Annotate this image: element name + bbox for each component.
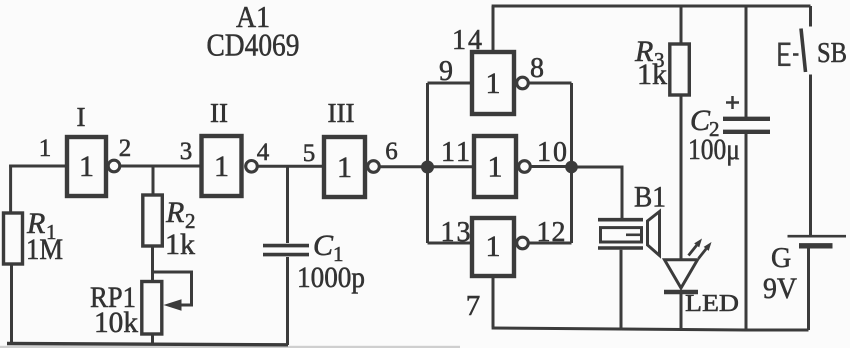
- svg-text:1: 1: [79, 150, 94, 183]
- node B junction dot: [565, 161, 578, 174]
- svg-text:I: I: [77, 102, 86, 132]
- svg-text:6: 6: [385, 138, 398, 165]
- label C2: [690, 104, 720, 141]
- inverter II: [202, 136, 258, 196]
- svg-text:7: 7: [466, 290, 481, 322]
- svg-text:1: 1: [488, 151, 503, 184]
- svg-text:SB: SB: [817, 37, 847, 69]
- top supply rail: [492, 5, 811, 8]
- wire pin 9 horizontal: [428, 82, 473, 85]
- svg-text:LED: LED: [685, 291, 739, 317]
- svg-text:2: 2: [119, 135, 132, 162]
- node A junction dot: [421, 161, 434, 174]
- wire inverter I output to inverter II: [120, 165, 202, 168]
- wire pin 12 horizontal: [528, 242, 571, 245]
- RP1 wiper connection wire: [152, 272, 192, 305]
- wire R2 to RP1: [151, 246, 154, 281]
- svg-text:5: 5: [303, 140, 316, 167]
- svg-text:100μ: 100μ: [688, 133, 740, 166]
- svg-text:1k: 1k: [165, 228, 195, 261]
- wire C1 to ground bus: [286, 257, 289, 345]
- svg-text:CD4069: CD4069: [207, 27, 300, 63]
- resistor R2: [143, 195, 163, 246]
- wire node B to B1: [572, 167, 623, 219]
- svg-text:11: 11: [441, 137, 470, 168]
- wire pin 10 horizontal: [530, 165, 571, 168]
- wire battery to bottom rail: [807, 249, 810, 331]
- buffer inverter U1c (pins 13-12): [472, 218, 528, 276]
- wire C2 to bottom rail: [745, 134, 748, 330]
- buffer inverter U1b (pins 11-10): [474, 136, 530, 197]
- svg-text:1M: 1M: [26, 233, 63, 266]
- buffer inverter U1a (pins 9-8): [472, 52, 528, 114]
- wire input column of buffers: [426, 83, 429, 243]
- wire inverter II output to inverter III: [256, 165, 324, 168]
- svg-text:C: C: [313, 229, 334, 262]
- svg-text:1: 1: [337, 151, 352, 184]
- bottom right rail: [492, 328, 809, 330]
- ground bus bottom left: [7, 344, 288, 345]
- wire top rail to R3: [680, 6, 683, 44]
- battery G: [788, 236, 847, 246]
- svg-text:3: 3: [180, 138, 193, 165]
- wire output column of buffers: [570, 83, 573, 243]
- wire B1 to bottom rail: [620, 250, 623, 329]
- svg-text:G: G: [771, 243, 791, 274]
- capacitor C2: [723, 119, 770, 132]
- inverter III: [324, 137, 379, 197]
- wire branch down to C1: [286, 166, 289, 243]
- svg-text:III: III: [328, 98, 355, 128]
- svg-text:10k: 10k: [94, 306, 138, 339]
- wire pin 11 horizontal: [428, 165, 475, 168]
- speaker B1: [598, 212, 660, 256]
- wire top rail to C2: [745, 6, 748, 117]
- svg-text:4: 4: [257, 139, 270, 166]
- svg-text:9V: 9V: [763, 272, 797, 305]
- potentiometer RP1: [142, 282, 162, 335]
- wire inverter III output to node A: [379, 165, 427, 168]
- svg-text:1: 1: [486, 230, 501, 263]
- wire R1 to ground bus: [10, 264, 13, 344]
- svg-text:1k: 1k: [637, 58, 667, 91]
- switch SB: [801, 6, 811, 236]
- inverter I: [67, 137, 120, 196]
- RP1 wiper arrow: [164, 299, 182, 311]
- wire branch down to R2: [152, 166, 155, 195]
- wire left input horizontal pin1: [9, 165, 67, 168]
- svg-text:B1: B1: [634, 181, 666, 214]
- label R3: [634, 35, 665, 72]
- LED arrows: [689, 239, 712, 259]
- label R1: [26, 207, 57, 244]
- wire pin 8 horizontal: [528, 82, 571, 85]
- wire pin 7 down: [492, 276, 495, 328]
- svg-text:1000p: 1000p: [297, 261, 365, 294]
- capacitor C1: [263, 246, 309, 255]
- svg-text:II: II: [210, 98, 228, 128]
- resistor R1: [4, 213, 23, 264]
- wire LED to bottom rail: [680, 294, 683, 330]
- switch SB actuator (E symbol): [780, 43, 799, 67]
- LED diode: [664, 260, 698, 292]
- label C1: [313, 229, 344, 266]
- svg-text:9: 9: [439, 56, 453, 87]
- svg-text:8: 8: [530, 53, 544, 84]
- svg-text:R: R: [165, 196, 184, 229]
- svg-text:1: 1: [39, 135, 52, 162]
- wire RP1 to ground bus: [151, 334, 154, 344]
- label R2: [165, 196, 196, 233]
- C2 plus sign: [726, 96, 739, 109]
- wire left vertical to R1: [9, 165, 12, 214]
- svg-text:1: 1: [486, 67, 501, 100]
- resistor R3: [670, 44, 690, 95]
- wire pin 14 to top rail: [492, 6, 495, 52]
- wire R3 to LED: [680, 95, 683, 260]
- wire pin 13 horizontal: [428, 242, 473, 245]
- svg-text:1: 1: [214, 150, 229, 183]
